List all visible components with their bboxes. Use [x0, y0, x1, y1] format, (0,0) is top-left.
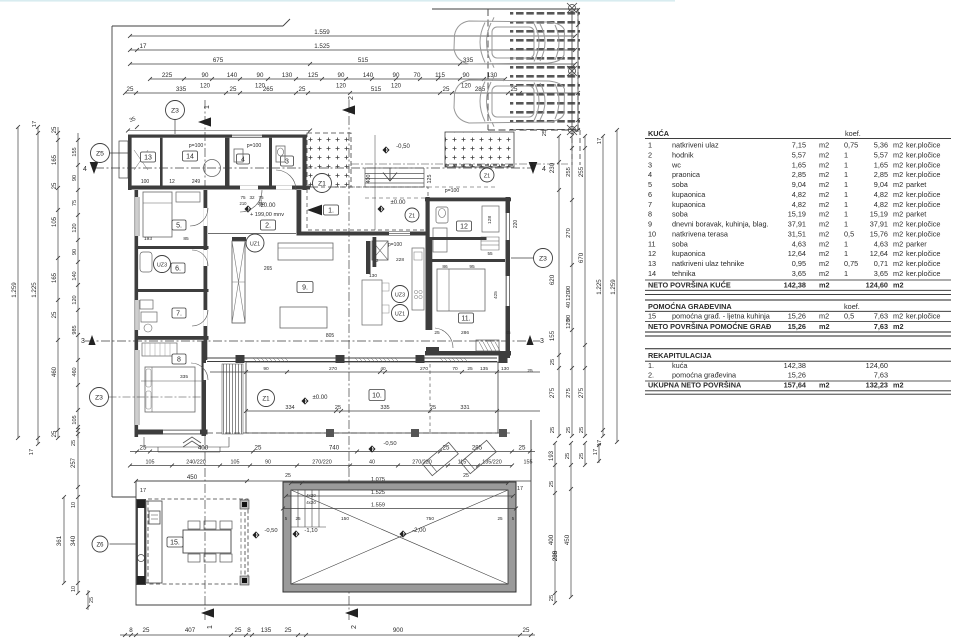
svg-text:praonica: praonica — [672, 170, 701, 179]
svg-text:1.: 1. — [328, 208, 334, 215]
svg-text:193: 193 — [549, 450, 555, 461]
room 3 contents — [281, 156, 294, 166]
scan artifact top edge — [0, 0, 675, 2]
svg-text:270: 270 — [420, 366, 428, 372]
svg-text:m2: m2 — [893, 180, 903, 189]
svg-text:25: 25 — [335, 405, 341, 411]
garage strip interior walls — [160, 138, 163, 186]
svg-text:25: 25 — [285, 473, 291, 479]
svg-text:25: 25 — [235, 627, 242, 634]
left lower dim chain 361 — [63, 497, 65, 583]
hall floor edge line — [208, 233, 296, 235]
svg-text:675: 675 — [213, 57, 224, 64]
svg-text:90: 90 — [338, 72, 345, 79]
svg-text:70: 70 — [452, 366, 458, 372]
svg-text:285: 285 — [475, 86, 486, 93]
kitchen counter right — [412, 248, 424, 310]
svg-text:140: 140 — [363, 72, 374, 79]
svg-text:7,15: 7,15 — [792, 141, 806, 150]
Z6 circle — [92, 536, 108, 552]
svg-text:natkriveni ulaz: natkriveni ulaz — [672, 141, 719, 150]
svg-text:m2: m2 — [819, 381, 830, 390]
garden outline — [112, 420, 531, 605]
pergola dashed rectangle — [148, 499, 248, 584]
svg-text:157,64: 157,64 — [784, 381, 807, 390]
entry stairs — [365, 168, 424, 187]
outdoor kitchen counter — [136, 499, 146, 585]
svg-text:286: 286 — [461, 330, 469, 336]
svg-text:12,64: 12,64 — [788, 249, 806, 258]
svg-text:31,51: 31,51 — [788, 229, 806, 238]
svg-text:0,5: 0,5 — [844, 229, 854, 238]
svg-text:335: 335 — [380, 405, 389, 411]
svg-text:1: 1 — [648, 141, 652, 150]
svg-text:m2: m2 — [893, 239, 903, 248]
svg-text:25: 25 — [52, 311, 58, 318]
left dimension chain 985 — [77, 133, 79, 438]
svg-text:KUĆA: KUĆA — [648, 129, 670, 138]
svg-text:25: 25 — [295, 516, 301, 521]
svg-text:kupaonica: kupaonica — [672, 200, 706, 209]
svg-text:75: 75 — [240, 195, 246, 200]
svg-text:15,26: 15,26 — [788, 312, 806, 321]
svg-text:Z1: Z1 — [484, 173, 491, 179]
left wing outer wall — [135, 190, 139, 437]
svg-text:25: 25 — [579, 453, 585, 459]
svg-text:10: 10 — [71, 502, 77, 508]
svg-text:400: 400 — [198, 444, 209, 451]
area table REKAPITULACIJA — [645, 348, 951, 350]
south wall columns — [236, 355, 245, 363]
terrace 10 slab — [246, 362, 498, 433]
outdoor kitchen side counter — [146, 501, 162, 583]
svg-text:pomoćna građevina: pomoćna građevina — [672, 371, 737, 380]
svg-text:14: 14 — [648, 269, 656, 278]
svg-text:120: 120 — [72, 223, 78, 232]
carport dashed hatch field — [510, 6, 580, 130]
svg-text:m2: m2 — [893, 312, 903, 321]
svg-text:4,63: 4,63 — [874, 239, 888, 248]
svg-text:70: 70 — [414, 72, 421, 79]
svg-text:165: 165 — [52, 154, 58, 165]
svg-text:-2,00: -2,00 — [412, 528, 426, 534]
svg-text:13: 13 — [144, 155, 152, 162]
svg-text:265: 265 — [263, 86, 274, 93]
left lower dim chain 257/340 — [77, 427, 79, 593]
svg-text:1: 1 — [844, 150, 848, 159]
svg-text:11.: 11. — [461, 316, 470, 323]
dimension row 1.559 — [130, 35, 575, 37]
svg-text:25: 25 — [299, 86, 306, 93]
terrace interior dims — [210, 371, 540, 373]
svg-text:7: 7 — [648, 200, 652, 209]
svg-text:3: 3 — [648, 160, 652, 169]
dim row 450 — [136, 480, 247, 482]
svg-text:120: 120 — [566, 291, 572, 301]
room 7 fixtures — [141, 312, 157, 322]
svg-text:9,04: 9,04 — [874, 180, 888, 189]
svg-text:UZ3: UZ3 — [157, 262, 167, 268]
svg-text:1.225: 1.225 — [31, 282, 38, 298]
svg-text:1.259: 1.259 — [11, 282, 18, 298]
svg-text:3: 3 — [285, 159, 289, 166]
svg-text:285: 285 — [552, 550, 559, 561]
living top wall — [297, 232, 429, 236]
svg-text:0,71: 0,71 — [874, 259, 888, 268]
svg-text:4,63: 4,63 — [792, 239, 806, 248]
svg-text:900: 900 — [393, 627, 404, 634]
garden top edge — [136, 480, 531, 482]
svg-text:270/220: 270/220 — [312, 459, 332, 465]
svg-text:m2: m2 — [819, 269, 829, 278]
svg-text:124,60: 124,60 — [866, 361, 888, 370]
UZ1 circle hall — [246, 234, 264, 252]
room 14 contents — [183, 151, 198, 161]
svg-text:620: 620 — [549, 274, 556, 285]
hall top wall door gaps — [240, 186, 258, 190]
svg-text:m2: m2 — [819, 239, 829, 248]
living room 9 label — [297, 282, 313, 293]
svg-text:105: 105 — [72, 415, 78, 424]
svg-text:Z5: Z5 — [96, 150, 104, 157]
svg-text:m2: m2 — [819, 220, 829, 229]
svg-text:12: 12 — [648, 249, 656, 258]
Z3 circle right — [534, 249, 553, 268]
svg-text:257: 257 — [71, 457, 77, 468]
svg-text:1.: 1. — [648, 361, 654, 370]
svg-text:255: 255 — [578, 166, 585, 177]
door stub wall below bath — [426, 347, 439, 352]
svg-text:12: 12 — [169, 179, 175, 185]
svg-text:1: 1 — [844, 200, 848, 209]
svg-text:ker.pločice: ker.pločice — [906, 141, 940, 150]
svg-text:m2: m2 — [893, 322, 904, 331]
svg-text:REKAPITULACIJA: REKAPITULACIJA — [648, 351, 712, 360]
svg-text:m2: m2 — [893, 190, 903, 199]
section line 4 horizontal — [95, 167, 535, 169]
svg-text:parker: parker — [906, 239, 927, 248]
top wall of living east part — [297, 190, 302, 235]
svg-text:ker.pločice: ker.pločice — [906, 160, 940, 169]
area table POMOCNA — [645, 299, 951, 301]
svg-text:805: 805 — [326, 333, 335, 339]
terrace 10 label — [369, 390, 385, 401]
svg-text:55: 55 — [487, 251, 493, 256]
svg-text:m2: m2 — [893, 170, 903, 179]
svg-text:750: 750 — [426, 516, 434, 522]
Z3 circle top — [166, 101, 185, 120]
svg-text:p=100: p=100 — [388, 242, 402, 248]
svg-text:koef.: koef. — [845, 129, 861, 138]
svg-text:25: 25 — [579, 427, 585, 433]
room 5 bed — [143, 192, 172, 237]
svg-text:8: 8 — [177, 357, 181, 364]
svg-text:25: 25 — [550, 427, 556, 433]
svg-text:10: 10 — [648, 229, 656, 238]
svg-text:17: 17 — [140, 488, 146, 494]
south glass wall hatch segments — [253, 358, 289, 362]
right wing partition 12/11 — [431, 259, 505, 262]
svg-text:9,04: 9,04 — [792, 180, 806, 189]
carport top boundary line — [432, 8, 578, 10]
room 8 right wall — [202, 341, 207, 436]
svg-text:75: 75 — [72, 200, 78, 206]
right wing top-right Z1 — [480, 168, 494, 182]
svg-text:90: 90 — [463, 72, 470, 79]
wing left wall door gap — [426, 265, 430, 285]
svg-text:90: 90 — [202, 72, 209, 79]
svg-text:7,63: 7,63 — [874, 371, 888, 380]
svg-text:150: 150 — [341, 516, 349, 522]
svg-text:0,75: 0,75 — [844, 141, 858, 150]
svg-text:25: 25 — [566, 427, 572, 433]
svg-text:17: 17 — [140, 43, 147, 50]
right dimension chain A — [558, 136, 560, 436]
svg-text:2.: 2. — [265, 223, 271, 230]
svg-text:m2: m2 — [819, 180, 829, 189]
svg-text:m2: m2 — [819, 229, 829, 238]
svg-text:240/220: 240/220 — [186, 459, 206, 465]
dimension row 17 / 1.525 — [130, 49, 575, 51]
svg-text:3,65: 3,65 — [792, 269, 806, 278]
right wing right wall windows — [506, 213, 510, 240]
hall/living separation columns — [232, 237, 246, 241]
room 15 label — [167, 537, 183, 547]
svg-text:kupaonica: kupaonica — [672, 190, 706, 199]
svg-text:120: 120 — [566, 319, 572, 329]
svg-text:335: 335 — [176, 86, 187, 93]
svg-text:ker.pločice: ker.pločice — [906, 170, 940, 179]
svg-text:ker.pločice: ker.pločice — [906, 269, 940, 278]
house garage strip outer walls — [128, 135, 307, 138]
room 6 bath fixtures — [140, 252, 152, 272]
svg-text:125: 125 — [427, 175, 433, 184]
svg-text:515: 515 — [371, 86, 382, 93]
svg-text:m2: m2 — [819, 160, 829, 169]
svg-text:90: 90 — [257, 72, 264, 79]
right dimension chain 1.225 — [602, 136, 604, 436]
svg-text:m2: m2 — [819, 322, 830, 331]
svg-text:2,85: 2,85 — [792, 170, 806, 179]
svg-text:165: 165 — [52, 272, 58, 283]
svg-text:425: 425 — [493, 291, 498, 299]
svg-text:25: 25 — [443, 86, 450, 93]
room 5 closet — [176, 192, 200, 202]
svg-text:25: 25 — [89, 597, 95, 603]
svg-text:220: 220 — [513, 220, 519, 229]
living bottom glass wall — [207, 357, 497, 359]
svg-text:25: 25 — [434, 330, 440, 336]
left wing partition 7/8 — [135, 336, 209, 340]
room 12 closet — [482, 206, 499, 232]
svg-text:5.: 5. — [176, 223, 182, 230]
svg-text:±0.00: ±0.00 — [391, 200, 407, 206]
hatched terrace label Z1 — [313, 174, 332, 193]
svg-text:85: 85 — [183, 236, 189, 242]
dining table — [183, 530, 231, 553]
svg-text:331: 331 — [460, 405, 469, 411]
left wall windows — [135, 197, 139, 236]
svg-text:460: 460 — [72, 367, 78, 376]
svg-text:12: 12 — [460, 224, 468, 231]
svg-text:2.: 2. — [648, 371, 654, 380]
kitchen island — [362, 280, 382, 325]
house top dim line — [128, 130, 310, 132]
svg-text:37,91: 37,91 — [788, 220, 806, 229]
Z3 circle left — [90, 388, 109, 407]
svg-text:m2: m2 — [819, 280, 830, 289]
svg-text:25: 25 — [542, 130, 548, 136]
svg-text:125: 125 — [308, 72, 319, 79]
svg-text:985: 985 — [72, 325, 78, 334]
svg-text:25: 25 — [550, 359, 556, 365]
svg-text:koef.: koef. — [844, 302, 860, 311]
svg-text:10: 10 — [71, 586, 77, 592]
svg-text:32: 32 — [249, 195, 255, 200]
svg-text:17: 17 — [597, 440, 603, 446]
room 12 fixtures — [436, 207, 448, 223]
living room sofa — [278, 243, 333, 260]
svg-text:25: 25 — [497, 516, 503, 521]
svg-text:407: 407 — [185, 627, 196, 634]
svg-text:132,23: 132,23 — [866, 381, 888, 390]
room 4 contents — [237, 154, 250, 164]
UZ circles center — [392, 286, 409, 303]
carport right dim marks — [577, 8, 579, 132]
svg-text:m2: m2 — [819, 141, 829, 150]
svg-text:p=100: p=100 — [247, 143, 262, 149]
svg-text:m2: m2 — [893, 280, 904, 289]
svg-text:5,36: 5,36 — [874, 141, 888, 150]
svg-text:86: 86 — [442, 264, 448, 270]
section line 2 vertical — [348, 100, 350, 620]
svg-text:128: 128 — [487, 216, 493, 224]
svg-text:270: 270 — [329, 366, 337, 372]
svg-text:255: 255 — [566, 167, 572, 177]
svg-text:m2: m2 — [819, 259, 829, 268]
svg-text:parket: parket — [906, 180, 926, 189]
svg-text:142,38: 142,38 — [784, 361, 806, 370]
svg-text:ker.pločice: ker.pločice — [906, 190, 940, 199]
wardrobe closet hatch — [232, 241, 245, 323]
svg-text:m2: m2 — [893, 210, 903, 219]
svg-text:460: 460 — [52, 366, 58, 377]
svg-text:25: 25 — [52, 430, 58, 437]
svg-text:25: 25 — [523, 627, 530, 634]
svg-text:2: 2 — [348, 96, 355, 100]
svg-text:+ 199,00 mnv: + 199,00 mnv — [250, 212, 284, 218]
terrace roof dash line — [429, 364, 431, 432]
right dimension chain 1.259 — [616, 130, 618, 442]
svg-text:soba: soba — [672, 210, 689, 219]
svg-text:130: 130 — [282, 72, 293, 79]
svg-text:100: 100 — [141, 179, 150, 185]
svg-text:140: 140 — [227, 72, 238, 79]
svg-text:7,63: 7,63 — [874, 322, 888, 331]
svg-text:wc: wc — [671, 160, 681, 169]
svg-text:249: 249 — [192, 179, 201, 185]
left wing partition 6/7 — [135, 289, 209, 292]
svg-text:4,82: 4,82 — [874, 200, 888, 209]
svg-text:142,38: 142,38 — [784, 280, 806, 289]
svg-text:90: 90 — [265, 459, 271, 465]
svg-text:hodnik: hodnik — [672, 150, 694, 159]
svg-text:25: 25 — [430, 405, 436, 411]
svg-text:natkriveni ulaz tehnike: natkriveni ulaz tehnike — [672, 259, 744, 268]
svg-text:1.559: 1.559 — [371, 502, 385, 508]
svg-text:155: 155 — [72, 147, 78, 156]
svg-text:natkrivena terasa: natkrivena terasa — [672, 229, 729, 238]
svg-text:13: 13 — [648, 259, 656, 268]
svg-text:25: 25 — [143, 627, 150, 634]
dim row below house 1 — [130, 451, 535, 453]
svg-text:Z1: Z1 — [409, 213, 416, 219]
svg-text:1: 1 — [204, 105, 211, 109]
svg-text:400: 400 — [366, 175, 372, 184]
hall wall above corridor — [208, 186, 310, 190]
svg-text:Z3: Z3 — [539, 255, 547, 262]
pool outer wall — [283, 482, 516, 592]
svg-text:1: 1 — [844, 180, 848, 189]
svg-text:5,57: 5,57 — [792, 150, 806, 159]
svg-text:302: 302 — [258, 199, 263, 207]
svg-text:Z3: Z3 — [95, 394, 103, 401]
svg-text:4x20: 4x20 — [306, 493, 316, 498]
canopy dashed line 198 — [365, 197, 428, 199]
svg-text:Z6: Z6 — [96, 542, 104, 548]
room 11 bed — [437, 269, 485, 311]
svg-text:17: 17 — [593, 449, 599, 455]
svg-text:1: 1 — [844, 190, 848, 199]
svg-text:UKUPNA NETO POVRŠINA: UKUPNA NETO POVRŠINA — [648, 381, 742, 390]
svg-text:11: 11 — [648, 239, 656, 248]
left dimension chain 1.225 — [37, 127, 39, 444]
loungers — [423, 442, 459, 475]
svg-text:soba: soba — [672, 180, 689, 189]
svg-text:6: 6 — [648, 190, 652, 199]
svg-text:14: 14 — [186, 154, 194, 161]
svg-text:m2: m2 — [893, 141, 903, 150]
svg-text:0,75: 0,75 — [844, 259, 858, 268]
svg-text:ker.pločice: ker.pločice — [906, 249, 940, 258]
svg-text:15,26: 15,26 — [788, 322, 806, 331]
svg-text:parket: parket — [906, 210, 926, 219]
svg-text:90: 90 — [72, 249, 78, 255]
svg-text:210: 210 — [240, 201, 248, 206]
left wing partition 5/6 — [135, 246, 209, 249]
svg-text:m2: m2 — [819, 150, 829, 159]
entry stairs arrow — [383, 168, 397, 182]
carport exit dashes — [571, 130, 573, 165]
svg-text:-1,10: -1,10 — [304, 528, 317, 534]
svg-text:25: 25 — [127, 86, 134, 93]
svg-text:120: 120 — [72, 295, 78, 304]
svg-text:115: 115 — [435, 72, 445, 79]
svg-text:ker.pločice: ker.pločice — [906, 220, 940, 229]
svg-text:1: 1 — [844, 220, 848, 229]
right lower dim chains — [554, 443, 556, 603]
svg-text:25: 25 — [467, 366, 473, 372]
svg-text:10.: 10. — [372, 393, 382, 400]
right wing outer walls — [425, 198, 511, 202]
svg-text:9.: 9. — [302, 285, 308, 292]
pergola corner posts — [240, 500, 249, 509]
svg-text:275: 275 — [566, 388, 572, 398]
left dimension chain 1.259 — [17, 127, 19, 438]
svg-text:kupaonica: kupaonica — [672, 249, 706, 258]
car 1 — [454, 17, 565, 67]
carport dashed border — [487, 9, 489, 130]
